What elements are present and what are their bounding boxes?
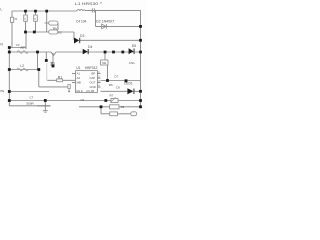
wire cap1 drop <box>25 11 27 32</box>
connector end small box <box>68 85 70 92</box>
fuse F1 body <box>11 17 14 22</box>
wire top rail <box>12 10 77 12</box>
junction dot y52 x113.5 <box>112 51 115 54</box>
wire B1 line y91.5 <box>9 91 49 93</box>
wire left rail <box>8 48 10 106</box>
resistor R8 box bottom y99.5 <box>111 98 118 102</box>
wire vert x37.5 choke right <box>37 52 39 70</box>
junction dot xfmr x46.3 <box>45 59 48 62</box>
junction dot top rail x46.7 <box>45 10 48 13</box>
wire node AC join y47.5 <box>9 47 26 49</box>
IC U1 box <box>76 71 98 93</box>
junction dot y52 x140.5 <box>139 51 142 54</box>
svg-text:R1: R1 <box>58 75 62 79</box>
svg-text:R7: R7 <box>110 93 114 97</box>
svg-text:L1 HRS30: L1 HRS30 <box>75 2 98 6</box>
svg-text:C4 104: C4 104 <box>76 20 87 24</box>
wire connector row y113.8 <box>101 113 131 115</box>
junction dot choke right y69.5 <box>37 68 40 71</box>
wire main rail y52 <box>9 52 140 56</box>
svg-text:D7: D7 <box>115 74 119 78</box>
svg-text:D3: D3 <box>80 34 84 38</box>
svg-text:L: L <box>0 8 2 12</box>
junction dot node y47.5 <box>8 46 11 49</box>
wire D3 output line <box>80 39 141 41</box>
diode D4 filled <box>83 49 88 55</box>
wire vert x101 rows join <box>100 107 102 114</box>
junction dot y40.3 right rail <box>139 39 142 42</box>
junction dot rail y52 x9.3 <box>8 51 11 54</box>
junction dot y106.8 right rail <box>139 105 142 108</box>
svg-text:OUT: OUT <box>90 81 96 85</box>
wire xfmr primary drop <box>45 52 47 61</box>
svg-text:C7: C7 <box>30 96 34 100</box>
wire line y78.5 to U1 <box>47 79 75 81</box>
diode D3 filled <box>74 38 79 44</box>
wire vert from top rail x46.7 <box>46 11 48 32</box>
wire choke lower line y69.5 <box>9 69 39 71</box>
junction dot xfmr x53 <box>52 65 55 68</box>
junction dot top rail x35.5 <box>34 10 37 13</box>
wire bottom line right y107.6 <box>79 106 141 108</box>
ground bar 1 <box>43 109 48 112</box>
svg-text:SW: SW <box>102 61 107 65</box>
small box top of U1 <box>101 60 109 65</box>
diode D5 bar <box>133 49 136 55</box>
capacitor C1 body <box>24 15 28 21</box>
capacitor series bars top line <box>92 8 94 12</box>
wire vert x38.8 choke to y86.9 <box>38 70 40 87</box>
junction dot y91.5 left rail <box>8 90 11 93</box>
junction dot y52 x122.8 <box>121 51 124 54</box>
junction dot y91.3 right rail <box>139 90 142 93</box>
junction dot choke left y69.5 <box>8 68 11 71</box>
junction dot y100.5 x105.8 <box>104 99 107 102</box>
junction dot y52 x105 <box>104 51 107 54</box>
wire D2 line y26.4 <box>96 25 141 27</box>
capacitor CX small box y22.7 <box>49 21 58 25</box>
wire mid rail y32 <box>26 31 75 33</box>
resistor R1 on y78.5 <box>57 79 63 82</box>
inductor L1 bumps <box>77 10 86 11</box>
svg-text:BP: BP <box>92 72 96 76</box>
diode D3 bar <box>78 38 81 43</box>
svg-text:D: D <box>81 89 83 93</box>
junction dot y106.8 x101 <box>100 105 103 108</box>
svg-text:U1: U1 <box>76 66 80 70</box>
resistor box on connector row <box>110 112 118 116</box>
junction dot y100.5 right rail <box>139 99 142 102</box>
junction dot top rail x25.5 <box>24 10 27 13</box>
svg-text:A2: A2 <box>77 76 81 80</box>
svg-text:RT1: RT1 <box>21 46 27 50</box>
wire vert x26 to node <box>25 32 27 48</box>
svg-text:CN1: CN1 <box>129 61 135 65</box>
svg-text:X2: X2 <box>58 30 62 34</box>
wire vert x74 down to D3 <box>73 32 75 40</box>
svg-text:500R: 500R <box>27 102 35 106</box>
ground bar 2 <box>44 111 46 114</box>
capacitor C2 body <box>34 15 38 21</box>
wire xfmr secondary drop <box>52 53 54 66</box>
wire vert x107.5 box to line y80.5 <box>107 65 109 81</box>
varistor RV1 box on rail y32 <box>49 30 58 34</box>
wire vert x95.5 L1 to D2 line <box>95 10 97 26</box>
svg-text:CAP: CAP <box>90 76 96 80</box>
resistor R9 box bottom y107.6 <box>110 105 119 109</box>
inductor winding upper y52 <box>17 51 28 54</box>
resistor R8 diagonal mark <box>110 97 115 103</box>
svg-text:C9: C9 <box>81 98 85 102</box>
junction dot y52 x37.5 <box>36 51 39 54</box>
junction dot y100.5 left rail <box>8 99 11 102</box>
svg-text:PE: PE <box>0 89 4 93</box>
thermistor thick segment y105.8 <box>37 105 51 107</box>
svg-text:D2 1N4007: D2 1N4007 <box>96 20 114 24</box>
wire U1 right pin stubs <box>97 74 100 88</box>
wire line y22.7 <box>45 23 59 30</box>
svg-text:GN: GN <box>76 89 80 93</box>
diode D4 bar <box>87 49 90 54</box>
diode D2 outline <box>102 24 107 29</box>
svg-text:R6: R6 <box>109 83 113 87</box>
svg-text:R9: R9 <box>121 105 125 109</box>
svg-text:D4: D4 <box>88 45 92 49</box>
wire cap2 drop <box>35 11 37 32</box>
junction dot y100.5 x45.3 <box>44 99 47 102</box>
junction dot y32 x34.3 <box>33 31 36 34</box>
svg-text:T1: T1 <box>51 62 55 66</box>
svg-text:C8: C8 <box>116 85 120 89</box>
junction dot y32 x25.5 <box>24 31 27 34</box>
wire vert x104 rail to small box <box>104 52 106 60</box>
wire fuse drop <box>11 11 13 48</box>
svg-text:MB: MB <box>77 81 81 85</box>
diode D5 filled <box>129 48 134 54</box>
svg-text:L2: L2 <box>20 64 24 68</box>
wire bottom line y99.5 <box>9 100 140 102</box>
svg-text:D5: D5 <box>132 44 136 48</box>
svg-text:LED1: LED1 <box>124 82 133 86</box>
wire vert x45.3 gnd drop <box>44 101 46 111</box>
svg-text:C3: C3 <box>16 43 20 47</box>
connector CN2 oval <box>131 112 137 116</box>
wire vert x46.8 xfmr to R1 line <box>46 63 48 80</box>
junction dot D2 right rail <box>139 25 142 28</box>
wire right rail <box>140 10 142 106</box>
connector end mark <box>68 91 70 92</box>
svg-text:KBP312: KBP312 <box>85 66 98 70</box>
wire U1 left pin stubs <box>72 74 76 83</box>
LED D6 bar <box>133 89 136 94</box>
svg-text:A1: A1 <box>77 72 81 76</box>
svg-text:CS: CS <box>86 89 90 93</box>
svg-text:GND: GND <box>90 85 96 89</box>
junction dot y80.5 x126 <box>125 79 128 82</box>
inductor winding lower y69.5 <box>17 68 28 71</box>
transformer marks <box>51 62 53 66</box>
wire line y80.5 <box>101 80 141 82</box>
wire top line after L1 <box>86 9 141 11</box>
LED D6 filled <box>127 88 133 94</box>
wire secondary return y86.9 <box>39 86 68 88</box>
svg-text:FB: FB <box>91 89 95 93</box>
wire bottom line left y106.5 <box>9 105 37 107</box>
junction dot y80.5 x107.5 <box>106 79 109 82</box>
wire LED line y89.8 <box>101 90 141 92</box>
